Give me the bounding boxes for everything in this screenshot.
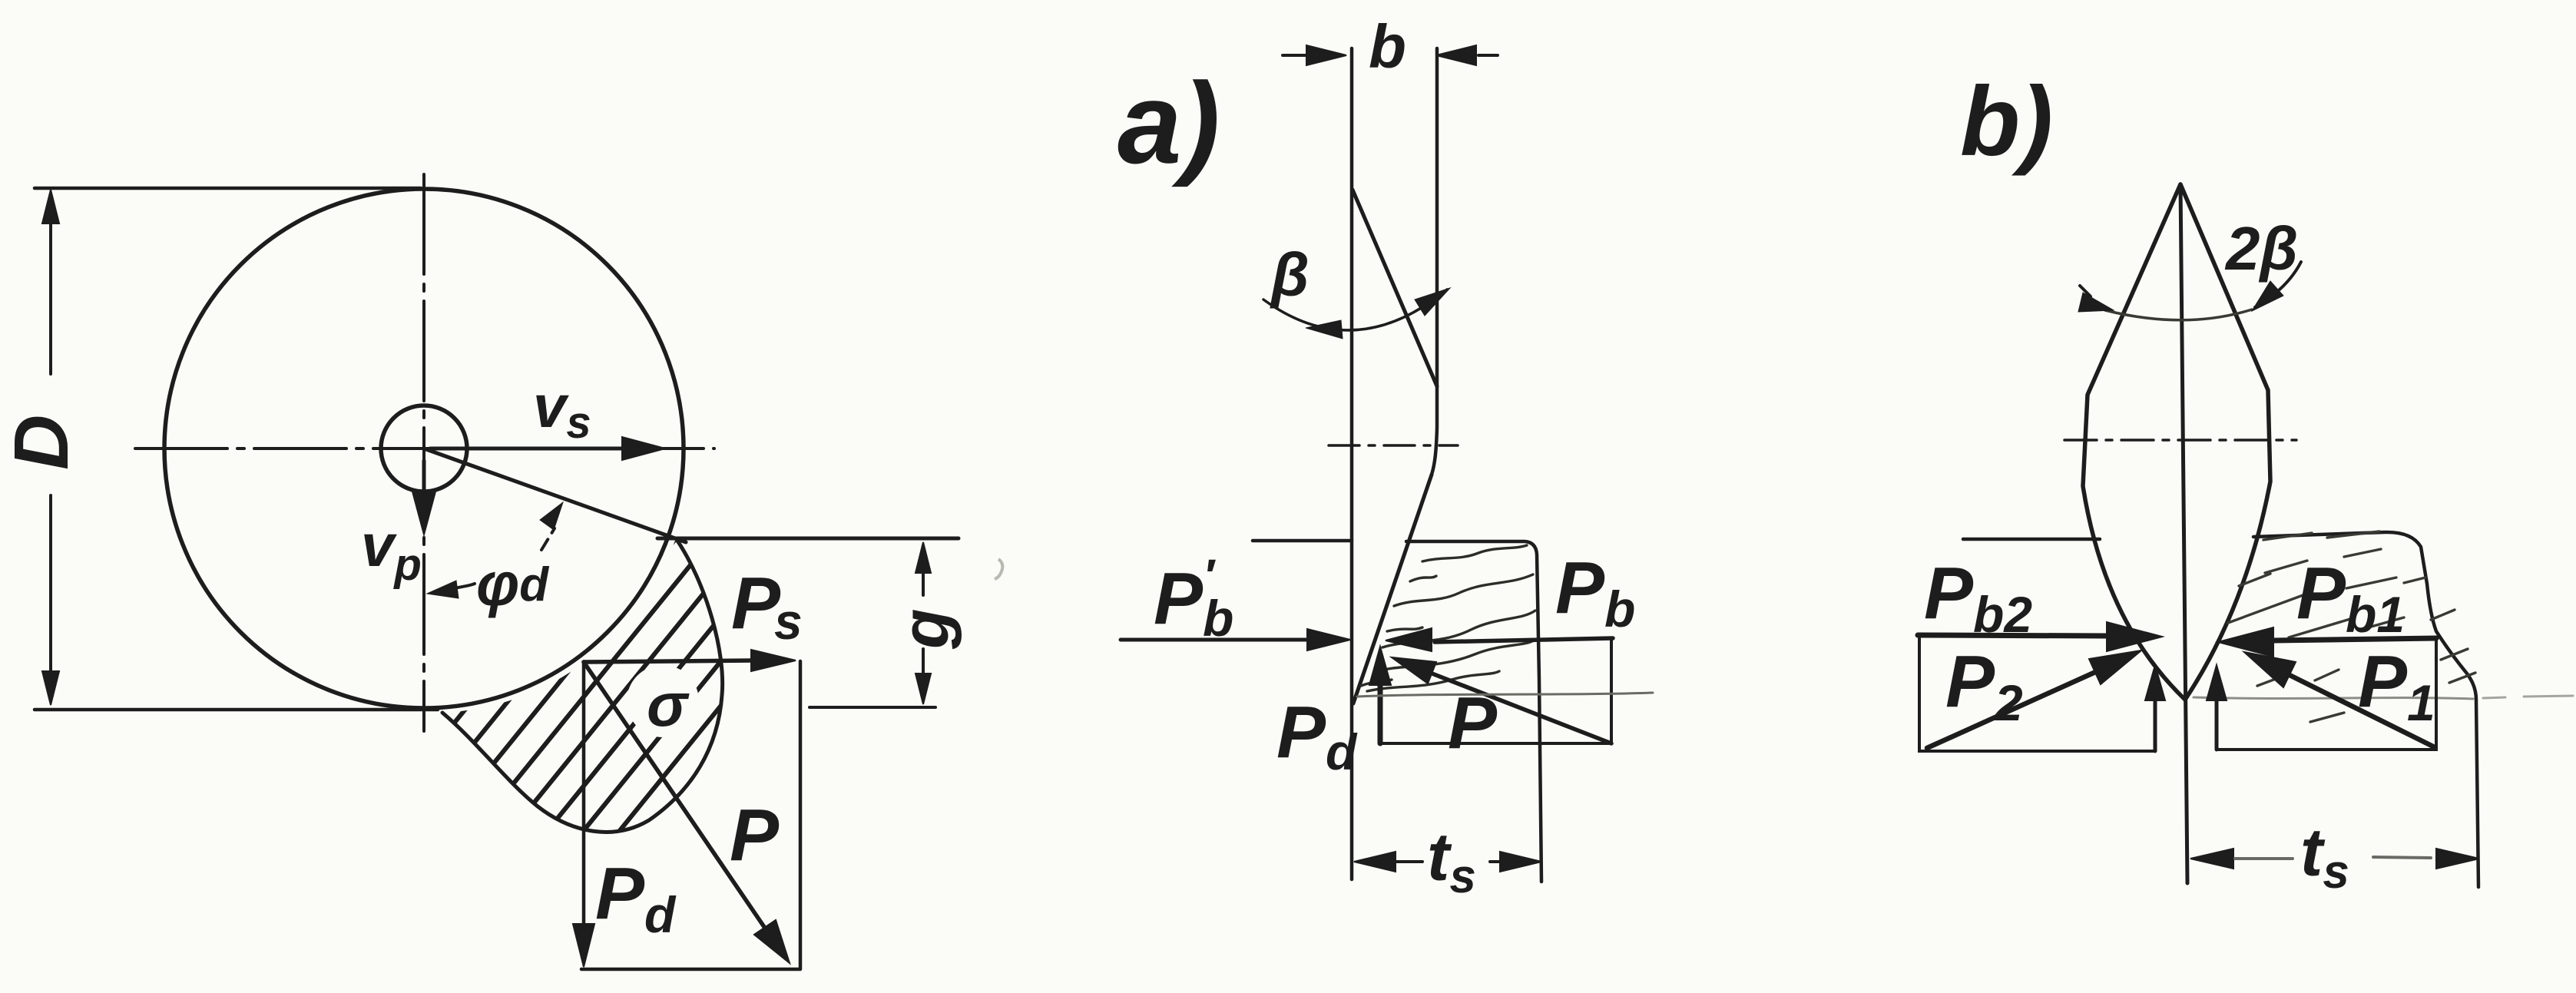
svg-text:D: D [0,415,84,470]
kerf bottom thin line fig a [1357,693,1653,697]
P arrow fig1 [584,662,790,963]
small up arrow left [2145,665,2165,751]
P'b arrow [1121,629,1350,650]
chip area hatched blob [323,530,972,841]
centerline fig a [1329,444,1458,447]
phi_d angle annotation [427,502,563,598]
workpiece grain block fig b [2253,532,2478,887]
tooth face edge [1353,475,1432,703]
Pb arrow [1386,628,1613,651]
left force rectangle fig b [1919,635,2155,751]
tooth center line [2180,184,2187,883]
saw blade circle [164,189,684,708]
svg-text:φd: φd [476,550,549,618]
Pb2 arrow [1918,622,2162,651]
svg-text:g: g [889,608,962,650]
D dimension bottom extension line [35,708,438,712]
vp arrow [412,461,435,535]
svg-text:P: P [730,794,780,876]
vs arrow [430,437,665,460]
wood grain fig a [1361,545,1535,691]
tooth right edge [2180,184,2270,700]
vertical centerline [422,174,425,731]
workpiece surface left of blade [1253,539,1352,543]
svg-text:b): b) [1960,67,2053,177]
radius line to cutting point [424,449,686,542]
tooth left edge [2083,184,2185,700]
Pb1 arrow [2218,627,2436,657]
blade left edge line [1350,48,1354,879]
bevel edge [1353,190,1437,386]
svg-text:b: b [1369,12,1406,81]
faint speck [995,559,1002,579]
arbor hole circle [381,405,467,492]
blade right edge line [1432,48,1437,475]
force rectangle fig a [1380,640,1611,743]
D dimension top extension line [35,187,421,190]
b dimension [1283,45,1498,65]
ts dimension fig b [2190,849,2479,869]
svg-text:a): a) [1117,58,1220,187]
svg-text:β: β [1270,240,1310,309]
ts dimension fig a [1354,852,1541,872]
faint kerf line right fig b [2483,696,2573,698]
svg-text:σ: σ [647,670,690,739]
Pd arrow fig1 [573,662,594,967]
g dimension lower reference line [810,706,935,709]
P2 arrow [1927,650,2141,748]
beta angle arc [1263,288,1450,339]
Pd arrow fig a [1369,647,1391,743]
horizontal centerline [135,447,714,450]
2beta angle arc [2078,262,2301,320]
g dimension [916,542,931,704]
wood grain fig b [2194,697,2473,699]
small up arrow right [2207,665,2227,750]
workpiece grain block outline [1406,541,1541,882]
D dimension vertical line with arrows [42,190,59,705]
workpiece top surface line (right of blade) [657,537,959,541]
force rectangle fig1 [581,661,800,969]
P1 arrow [2244,652,2433,746]
centerline fig b [2064,439,2296,442]
P arrow fig a [1392,657,1611,743]
workpiece surface left fig b [1963,538,2100,541]
right force rectangle fig b [2217,638,2436,750]
svg-text:2β: 2β [2224,214,2298,283]
Ps arrow [584,650,796,671]
